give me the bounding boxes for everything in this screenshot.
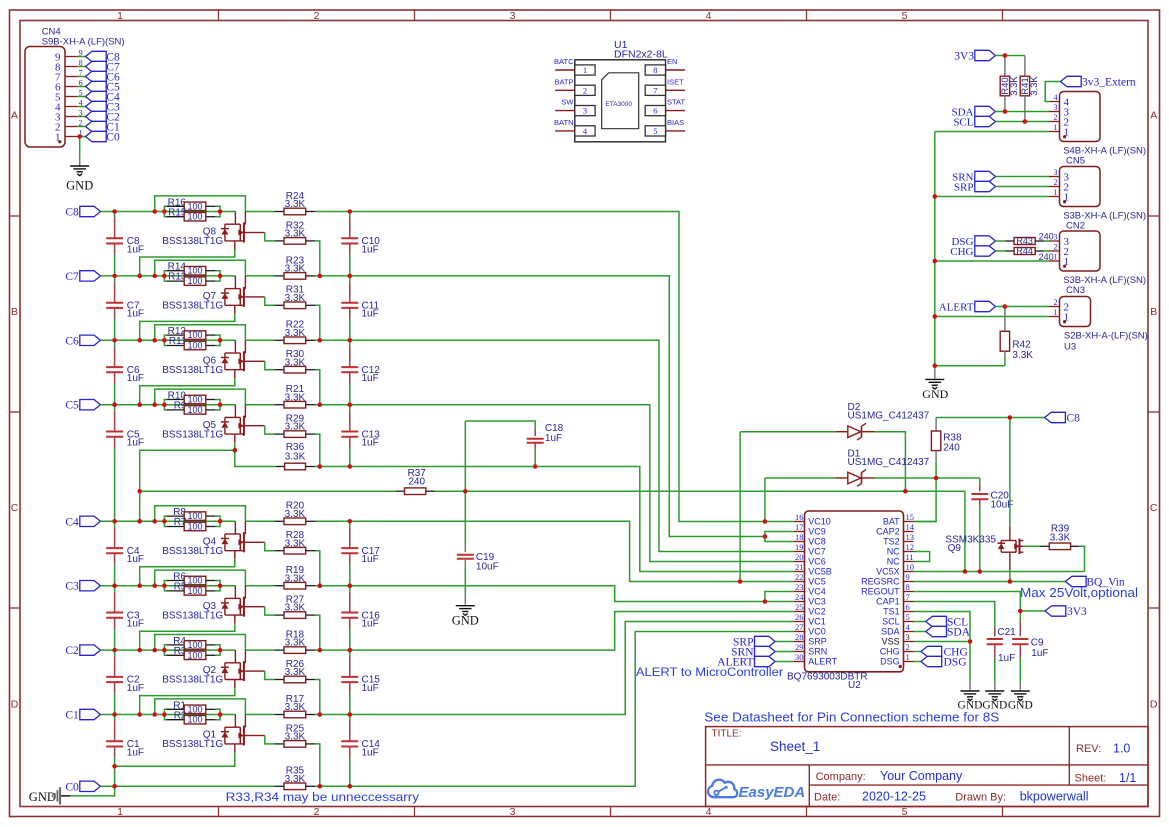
net flag 3v3_Extern [1061,76,1136,88]
wire R38 to BAT pin [914,478,937,522]
resistor R4 100 [166,636,215,650]
wire loop to upper resistor [245,649,274,651]
svg-text:DSG: DSG [944,657,967,669]
net flag CHG [914,646,968,658]
svg-text:R33,R34 may be unneccessarry: R33,R34 may be unneccessarry [226,790,420,804]
U2 pin 10 VC5X [876,562,914,577]
U2 pin 7 CAP1 [876,592,913,607]
svg-text:REV:: REV: [1076,743,1101,755]
wire row loop [155,260,246,276]
wire D2 anode feed from VC5 net [739,432,741,582]
svg-text:US1MG_C412437: US1MG_C412437 [848,457,930,468]
wire row C7 [101,275,236,277]
svg-text:CAP2: CAP2 [876,527,900,537]
CN4 pin 4 [55,98,86,113]
capacitor C16 1uF [341,586,380,650]
svg-text:Company:: Company: [816,771,866,783]
wire mosfet to lower resistor [265,607,275,615]
CN4 pin 2 [55,118,86,133]
U1 pin 4 BATN [554,118,595,136]
svg-text:1: 1 [583,65,587,75]
U2 pin 8 REGOUT [861,582,913,597]
svg-text:BSS138LT1G: BSS138LT1G [162,429,223,440]
svg-text:ALERT: ALERT [808,657,837,667]
svg-text:ISET: ISET [667,77,684,86]
resistor R8 100 [166,507,215,521]
svg-text:1: 1 [1054,253,1058,262]
net flag 3V3 right [1045,606,1087,618]
U1 pin 8 EN [645,57,685,75]
svg-text:26: 26 [795,612,804,622]
net flag CHG top [950,246,995,258]
U1 pin 2 BATP [554,77,595,95]
wire mosfet to lower resistor [265,233,275,241]
resistor R29 3.3K lower [275,414,315,438]
ground GND under CN4 [66,166,93,193]
resistor R14 100 [166,262,215,276]
wire staple VC4 VC3 [765,592,794,602]
CN4 pin 1 [55,128,86,143]
U2 pin 24 VC3 [794,592,826,607]
svg-text:VC3: VC3 [808,597,826,607]
wire pair left jogs [164,645,166,655]
svg-text:ALERT: ALERT [939,302,974,314]
resistor R19 3.3K [275,565,315,589]
U2 pin 17 VC9 [794,522,826,537]
connector CN5 S4B-XH-A [1049,92,1146,167]
svg-text:TITLE:: TITLE: [712,728,742,739]
svg-text:C2: C2 [65,645,79,657]
wire pair right jogs [215,400,220,410]
svg-text:VC10: VC10 [808,517,831,527]
connector CN3 S3B-XH-A [1049,231,1146,296]
svg-text:3: 3 [1054,168,1058,177]
wire C0 row to U2 VC0 [315,632,794,787]
net flag C6 [65,335,100,347]
wire pair left jogs [164,516,166,526]
svg-text:SCL: SCL [882,617,900,627]
svg-text:5: 5 [902,806,908,818]
wire U3 pin1 [935,316,1049,318]
svg-text:U3: U3 [1064,342,1076,353]
svg-text:240: 240 [1039,231,1054,241]
svg-text:5: 5 [906,612,910,622]
IC U2 BQ7693003DBTR [787,511,904,691]
svg-text:14: 14 [906,522,915,532]
svg-text:100: 100 [187,640,202,650]
wire row loop [155,570,246,586]
EasyEDA logo [708,780,805,801]
svg-text:2: 2 [314,10,320,22]
wire C6 row to U2 VC7 [315,340,794,551]
resistor R39 3.3K [1023,524,1079,550]
wire pair left jogs [164,271,166,281]
svg-text:100: 100 [187,395,202,405]
net flag C5 [86,81,120,93]
resistor R12 100 [166,326,215,340]
svg-text:1uF: 1uF [545,433,562,444]
wire C2 row to U2 VC2 [315,612,794,651]
net flag C1 [86,121,120,133]
U2 pin 25 VC2 [794,602,826,617]
svg-text:bkpowerwall: bkpowerwall [1020,790,1089,804]
svg-text:21: 21 [795,562,804,572]
wire ALERT to U3 pin2 [995,306,1049,308]
svg-text:STAT: STAT [667,98,685,107]
wire C7 row to U2 VC9 VC8 [315,276,765,537]
wire row loop [155,196,246,212]
wire row C8 [101,211,236,213]
svg-text:Your Company: Your Company [880,769,963,783]
capacitor C9 1uF [1012,611,1048,682]
svg-text:C7: C7 [65,271,79,283]
net flag C7 [86,61,120,73]
U2 pin 20 VC6 [794,552,826,567]
svg-text:C8: C8 [65,207,79,219]
wire D2 left [740,431,836,433]
svg-text:CAP1: CAP1 [876,597,900,607]
wire loop to upper resistor [245,275,274,277]
svg-text:C6: C6 [65,335,79,347]
U2 pin 23 VC4 [794,582,826,597]
transistor Q5 BSS138LT1G [162,405,265,443]
U2 pin 21 VC5B [794,562,832,577]
U2 pin 15 BAT [883,512,914,527]
svg-text:1uF: 1uF [127,619,144,630]
svg-text:1uF: 1uF [998,653,1015,664]
resistor R26 3.3K lower [275,659,315,683]
wire R42 to ground bus [935,365,1005,367]
U2 pin 19 VC7 [794,542,826,557]
svg-text:SW: SW [561,98,574,107]
svg-text:C1: C1 [65,710,79,722]
junction dots row [0,0,1,1]
svg-text:2: 2 [1054,298,1058,307]
wire Q2 source return [140,688,235,714]
wire pair left jogs [164,206,166,216]
wire CAP1 to C21 [914,602,995,626]
svg-text:13: 13 [906,532,915,542]
wire staple VC9 VC8 [765,532,794,542]
svg-text:8: 8 [653,65,657,75]
resistor R25 3.3K lower [275,723,315,747]
svg-text:EasyEDA: EasyEDA [739,784,806,801]
svg-text:CN2: CN2 [1066,221,1085,232]
svg-text:3: 3 [510,10,516,22]
net flag ALERT left [717,656,794,668]
wire pair left jogs [164,581,166,591]
wire lower resistor chain down [315,434,320,466]
wire GND flag to C0 row [70,786,114,796]
capacitor C19 10uF [457,544,499,595]
wire row loop [155,389,246,405]
net flag DSG top [951,236,995,248]
svg-text:GND: GND [66,179,93,193]
svg-text:6: 6 [653,106,657,116]
wire left ground bus [934,132,936,366]
wire C8 net flag horizontal [936,417,1045,419]
capacitor C4 1uF [106,521,144,585]
wire Q6 source return [140,378,235,404]
wire CN2 pin1 [935,196,1049,198]
wire R39 to VC5X [1079,546,1084,571]
svg-text:VC1: VC1 [808,617,826,627]
ground GND 2 [982,682,1007,711]
net flag SRN top [952,171,995,183]
U2 pin 9 REGSRC [861,572,913,587]
svg-text:VC8: VC8 [808,537,826,547]
svg-text:1uF: 1uF [127,554,144,565]
wire pair right jogs [215,645,220,655]
svg-text:SDA: SDA [947,627,971,639]
svg-text:BSS138LT1G: BSS138LT1G [162,301,223,312]
capacitor C6 1uF [106,340,144,404]
resistor R10 100 [166,391,215,405]
svg-text:BATC: BATC [554,57,574,66]
svg-text:GND: GND [29,790,56,804]
net flag BQ_Vin [1065,576,1125,588]
resistor R16 100 [166,197,215,211]
svg-text:100: 100 [187,201,202,211]
svg-text:CHG: CHG [950,246,973,258]
capacitor C11 1uF [341,276,379,340]
svg-text:SRN: SRN [808,647,827,657]
svg-text:30: 30 [795,652,804,662]
svg-text:B: B [1150,306,1157,318]
wire Q3 source return [140,624,235,650]
wire Q1 source return [115,753,235,767]
svg-text:REGSRC: REGSRC [861,577,900,587]
svg-text:REGOUT: REGOUT [861,587,900,597]
svg-text:VC0: VC0 [808,627,826,637]
svg-text:NC: NC [887,547,900,557]
net flag C1 [65,709,100,721]
wire loop to upper resistor [245,211,274,213]
svg-text:10: 10 [906,562,915,572]
svg-text:D: D [1150,699,1158,711]
svg-text:1uF: 1uF [127,438,144,449]
svg-text:DFN2x2-8L: DFN2x2-8L [614,49,668,61]
U2 pin 5 SCL [882,612,913,627]
wire loop to upper resistor [245,339,274,341]
svg-text:A: A [1150,110,1157,122]
wire loop to upper resistor [245,404,274,406]
resistor R2 100 [166,710,215,724]
svg-text:VC5X: VC5X [876,567,900,577]
resistor R6 100 [166,572,215,586]
svg-text:Date:: Date: [814,791,840,803]
CN4 pin 6 [55,78,86,93]
svg-text:1: 1 [1054,188,1058,197]
connector CN4 S9B-XH-A [25,26,125,147]
svg-text:2: 2 [1054,243,1058,252]
svg-text:24: 24 [795,592,804,602]
wire row C5 [101,404,236,406]
svg-text:GND: GND [958,699,983,711]
resistor R28 3.3K lower [275,530,315,554]
svg-text:CN3: CN3 [1066,285,1085,296]
resistor R17 3.3K [275,694,315,718]
U2 pin 2 CHG [880,642,914,657]
wire pair right jogs [215,516,220,526]
wire 3V3 to resistors [995,55,1025,57]
svg-text:BSS138LT1G: BSS138LT1G [162,546,223,557]
diode D2 US1MG_C412437 [836,402,930,440]
svg-text:100: 100 [187,405,202,415]
U2 pin 27 VC0 [794,622,826,637]
svg-text:BQ_Vin: BQ_Vin [1086,577,1125,589]
wire C19 to ground [464,595,466,605]
net flag C4 [86,91,120,103]
junction dots row [0,0,1,1]
svg-text:4: 4 [706,10,712,22]
svg-text:VC4: VC4 [808,587,826,597]
wire pair right jogs [215,206,220,216]
ground GND 1 [958,682,983,711]
capacitor C20 10uF [971,478,1013,572]
svg-text:CN5: CN5 [1066,156,1085,167]
U2 pin 28 SRP [794,632,827,647]
svg-text:1: 1 [1054,308,1058,317]
capacitor C14 1uF [341,715,380,787]
wire lower resistor chain down [315,615,320,650]
wire lower resistor chain down [315,370,320,405]
svg-text:25: 25 [795,602,804,612]
wire R36 row to U2 VC5B [315,467,794,572]
svg-text:100: 100 [187,341,202,351]
capacitor C18 1uF [465,421,563,467]
net flag DSG [914,656,967,668]
svg-text:1uF: 1uF [127,309,144,320]
svg-text:VSS: VSS [882,637,900,647]
transistor Q3 BSS138LT1G [162,586,265,624]
svg-text:100: 100 [187,586,202,596]
svg-text:B: B [11,306,18,318]
wire pair left jogs [164,400,166,410]
wire pair right jogs [215,335,220,345]
wire row C3 [101,585,236,587]
resistor R43 240 [995,231,1053,246]
wire Q8 source return [140,250,235,276]
resistor R18 3.3K [275,630,315,654]
svg-text:1uF: 1uF [1031,648,1048,659]
net flag C5 [65,400,100,412]
resistor R11 100 [166,336,215,350]
svg-text:3.3K: 3.3K [1029,76,1040,96]
net flag GND bottom left [29,787,70,804]
net flag SDA right [914,626,971,638]
svg-text:C0: C0 [65,781,79,793]
connector U3 S2B-XH-A [1049,297,1148,353]
svg-text:C3: C3 [65,581,79,593]
svg-text:1uF: 1uF [362,373,379,384]
wire REGOUT to 3V3 [914,592,1046,612]
svg-text:12: 12 [906,542,915,552]
svg-text:10uF: 10uF [476,561,499,572]
net flag SRP top [954,181,996,193]
svg-text:17: 17 [795,522,804,532]
capacitor C12 1uF [341,340,380,404]
svg-text:100: 100 [187,276,202,286]
svg-text:BSS138LT1G: BSS138LT1G [162,365,223,376]
net flag C0 [86,131,120,143]
svg-text:100: 100 [187,704,202,714]
svg-text:Sheet_1: Sheet_1 [770,739,820,754]
svg-text:1uF: 1uF [127,244,144,255]
diode D1 US1MG_C412437 [836,449,930,487]
svg-text:VC2: VC2 [808,607,826,617]
CN4 pin1 marker [58,140,61,143]
svg-text:BSS138LT1G: BSS138LT1G [162,236,223,247]
U2 pin 6 TS1 [883,602,913,617]
wire pair right jogs [215,709,220,719]
U2 pin 12 NC [887,542,914,557]
wire C5 row to U2 VC6 [315,405,794,562]
svg-text:C: C [11,502,19,514]
svg-text:SRP: SRP [808,637,827,647]
svg-text:VC6: VC6 [808,557,826,567]
svg-text:5: 5 [902,10,908,22]
wire C8 row to U2 VC10 [315,212,794,522]
junction dots R36 row [0,0,1,1]
wire pair right jogs [215,581,220,591]
transistor Q7 BSS138LT1G [162,276,265,314]
capacitor C3 1uF [106,586,144,650]
wire CN4 pin1 to GND [79,137,81,160]
svg-text:27: 27 [795,622,804,632]
svg-text:SDA: SDA [881,627,900,637]
net flag C2 [65,645,100,657]
svg-text:VC5B: VC5B [808,567,832,577]
svg-text:6: 6 [906,602,910,612]
svg-text:TS2: TS2 [883,537,900,547]
junction dots row [0,0,1,1]
svg-text:R44: R44 [1016,246,1033,256]
net flag C3 [65,581,100,593]
wire CN3 pin1 [935,260,1049,262]
U1 pin 5 BIAS [645,118,685,136]
svg-text:2: 2 [314,806,320,818]
wire Q5 source return to R36 and R37 rows [140,443,276,522]
net flag C3 [86,101,120,113]
net flag C8 [86,51,120,63]
svg-text:BSS138LT1G: BSS138LT1G [162,675,223,686]
wire loop to upper resistor [245,585,274,587]
svg-text:US1MG_C412437: US1MG_C412437 [848,411,930,422]
svg-text:5: 5 [653,126,657,136]
wire D1 anode feed to VC10 [764,478,766,522]
resistor R1 100 [166,700,215,714]
svg-text:15: 15 [906,512,915,522]
svg-text:SCL: SCL [953,117,973,129]
svg-text:1uF: 1uF [362,309,379,320]
U1 pin 6 STAT [645,98,685,116]
U2 pin 11 NC [887,552,914,567]
net flag C8 [65,206,100,218]
wire VSS [914,641,971,643]
svg-text:DSG: DSG [880,657,900,667]
svg-text:100: 100 [187,522,202,532]
svg-text:1uF: 1uF [362,683,379,694]
capacitor C8 1uF [106,212,144,276]
net flag C0 [65,781,100,793]
net flag SCL left [953,116,995,128]
svg-text:BSS138LT1G: BSS138LT1G [162,739,223,750]
svg-text:Sheet:: Sheet: [1075,773,1107,785]
svg-text:1uF: 1uF [127,747,144,758]
resistor R44 240 [995,246,1053,262]
svg-text:22: 22 [795,572,804,582]
